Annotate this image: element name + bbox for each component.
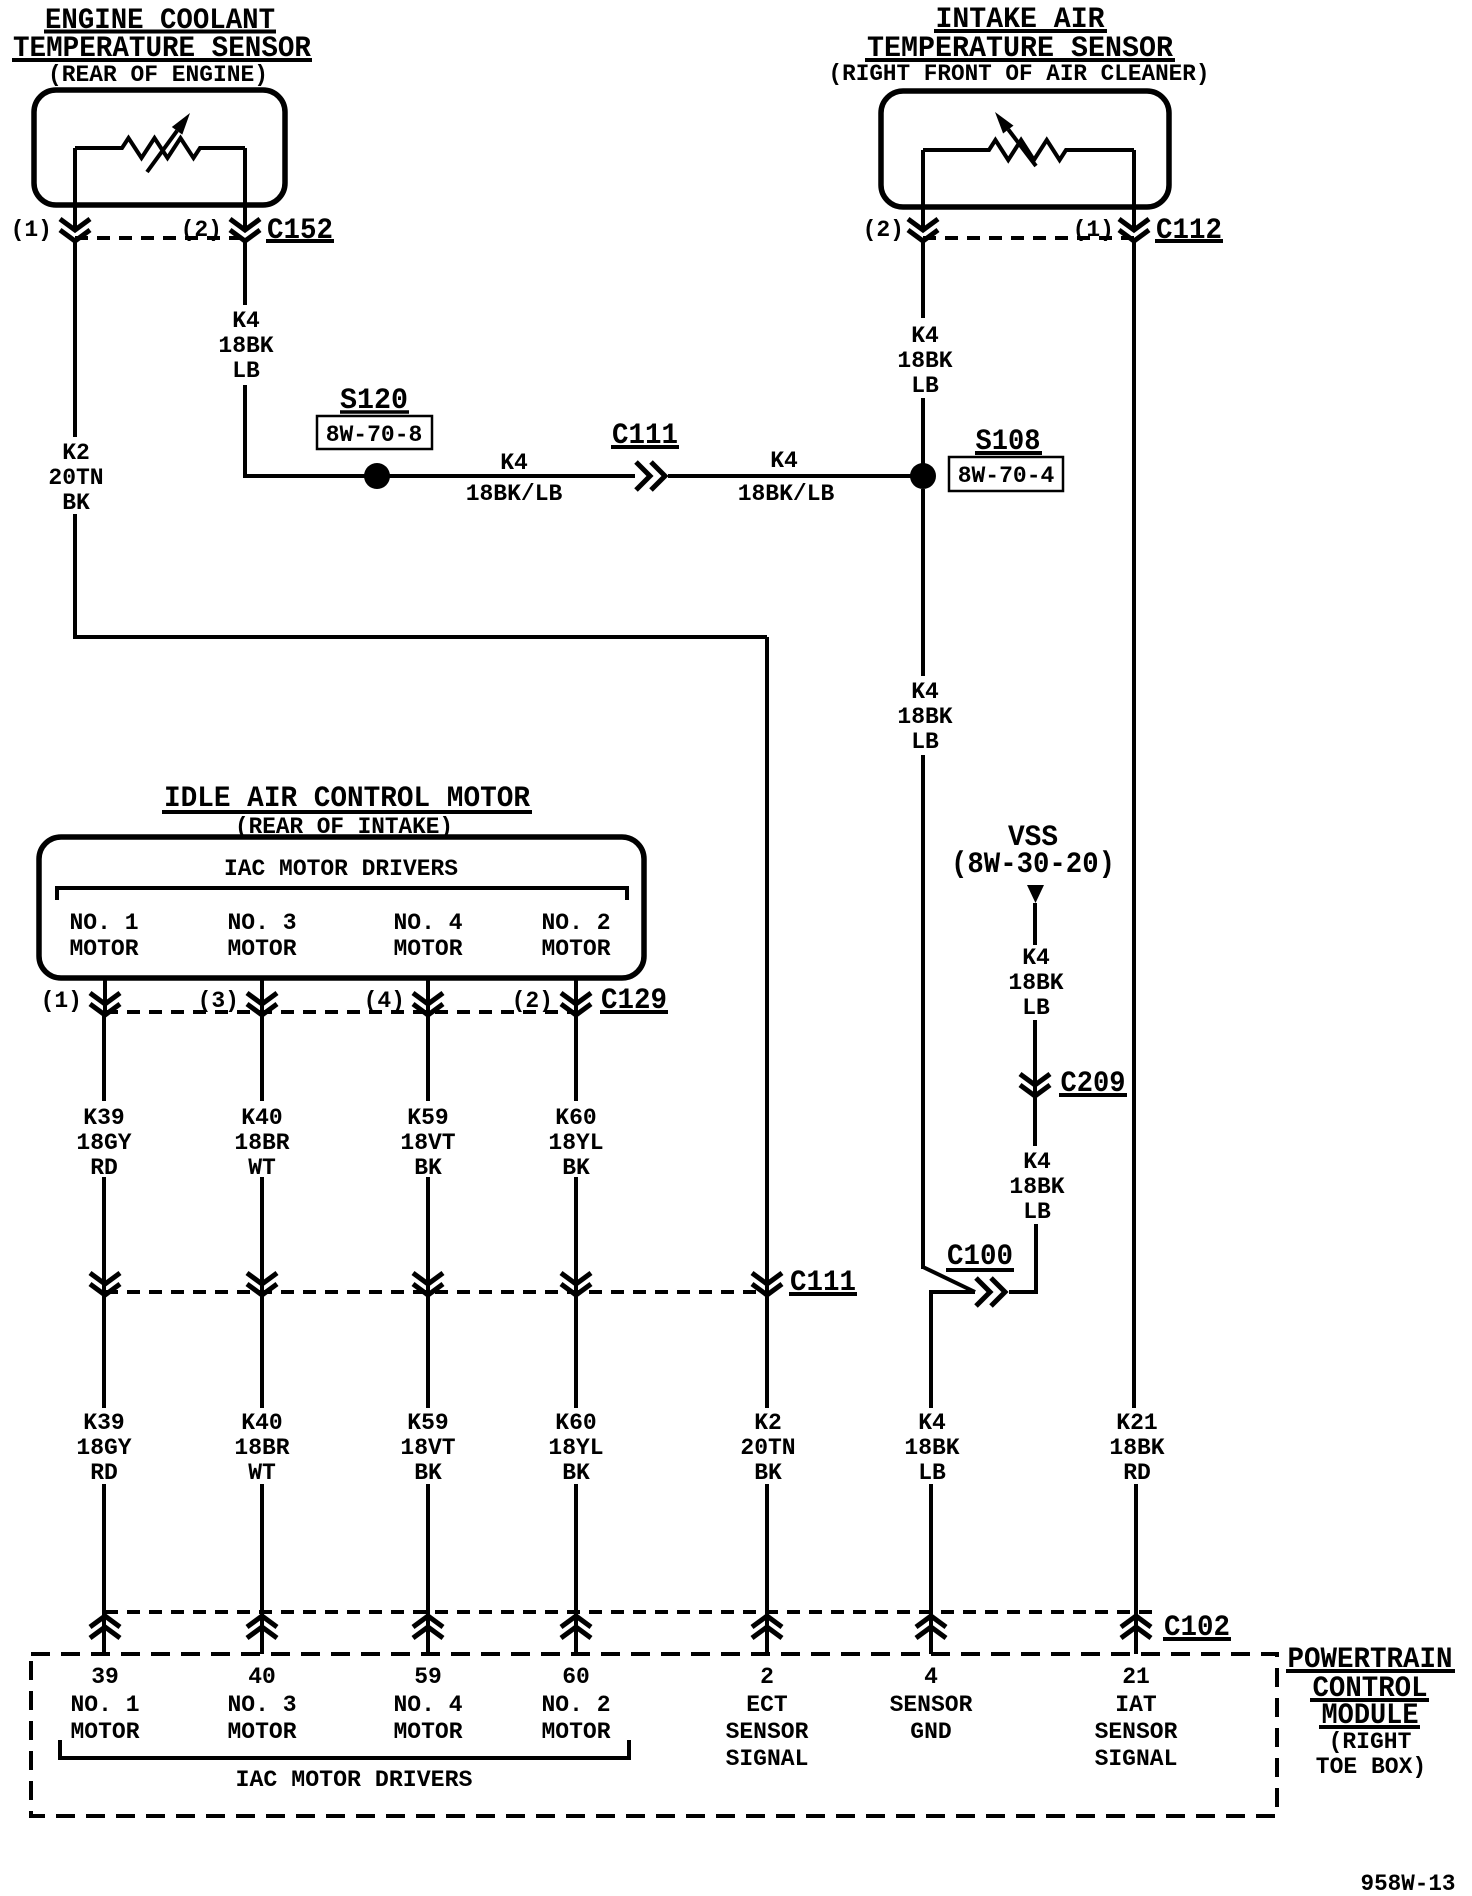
svg-text:K39: K39 <box>83 1105 124 1131</box>
wire IAT pin1 lead <box>1132 150 1136 230</box>
wire ECT signal down to C111 row <box>765 637 769 1295</box>
svg-text:(1): (1) <box>41 988 82 1014</box>
svg-text:18YL: 18YL <box>548 1130 603 1156</box>
wire below C111 at x=104 <box>102 1295 106 1408</box>
svg-text:K4: K4 <box>232 308 260 334</box>
C129 chevron pin (1) <box>90 993 120 1015</box>
svg-text:LB: LB <box>918 1460 946 1486</box>
wire below C129 at x=428 <box>426 1015 430 1101</box>
svg-text:(1): (1) <box>11 217 52 243</box>
wire continues to splice S108 <box>921 398 925 476</box>
svg-text:(2): (2) <box>512 988 553 1014</box>
splice S120 dot <box>364 463 390 489</box>
svg-text:MOTOR: MOTOR <box>227 1719 296 1745</box>
svg-text:18BK: 18BK <box>1008 970 1063 996</box>
svg-text:MOTOR: MOTOR <box>393 936 462 962</box>
svg-text:18BR: 18BR <box>234 1130 289 1156</box>
svg-text:18YL: 18YL <box>548 1435 603 1461</box>
svg-text:MOTOR: MOTOR <box>69 936 138 962</box>
wire K2 horizontal run to right <box>75 635 767 639</box>
svg-text:K40: K40 <box>241 1105 282 1131</box>
svg-text:K4: K4 <box>911 679 939 705</box>
svg-text:(2): (2) <box>181 217 222 243</box>
inline connector C111 chevron <box>636 462 665 490</box>
svg-text:TOE BOX): TOE BOX) <box>1316 1754 1426 1780</box>
svg-text:BK: BK <box>414 1460 442 1486</box>
svg-text:K4: K4 <box>1022 945 1050 971</box>
ECT resistor arrow <box>147 131 177 172</box>
C129 chevron pin (4) <box>413 993 443 1015</box>
wire below C129 at x=262 <box>260 1015 264 1101</box>
IAT variable resistor <box>923 140 1134 160</box>
svg-text:K60: K60 <box>555 1105 596 1131</box>
svg-text:K59: K59 <box>407 1410 448 1436</box>
wire K4 continues down to corner <box>243 385 247 476</box>
wire to C102 at x=104 <box>102 1484 106 1654</box>
svg-text:BK: BK <box>754 1460 782 1486</box>
wire to C111 row at x=428 <box>426 1177 430 1295</box>
wire ECT pin2 lead <box>243 148 247 230</box>
svg-text:40: 40 <box>248 1664 276 1690</box>
svg-text:21: 21 <box>1122 1664 1150 1690</box>
C112 pin 2 chevron <box>908 219 938 241</box>
C152 pin 1 chevron <box>60 219 90 241</box>
IAT resistor arrow <box>1008 130 1036 166</box>
wire horizontal to splice S120 <box>243 474 635 478</box>
svg-text:SIGNAL: SIGNAL <box>726 1746 809 1772</box>
wire to C102 pin 4 <box>929 1484 933 1654</box>
wire below C111 at x=767 <box>765 1295 769 1408</box>
svg-text:BK: BK <box>562 1460 590 1486</box>
wire to C102 at x=767 <box>765 1484 769 1654</box>
svg-text:LB: LB <box>1023 1199 1051 1225</box>
svg-text:MOTOR: MOTOR <box>227 936 296 962</box>
wire IAC motor column 4 <box>574 978 578 1012</box>
wire to C102 at x=262 <box>260 1484 264 1654</box>
svg-text:20TN: 20TN <box>740 1435 795 1461</box>
C152 pin 2 chevron <box>230 219 260 241</box>
wire to C111 row at x=576 <box>574 1177 578 1295</box>
wire IAT signal from C112 pin1 down <box>1132 241 1136 1408</box>
C102 chevron at x=931 <box>916 1616 946 1638</box>
inline connector C100 chevron <box>976 1278 1005 1306</box>
wire C100 right horizontal <box>1009 1290 1036 1294</box>
IAC drivers bracket <box>57 888 627 900</box>
wire continues down to C100 area <box>921 755 925 1269</box>
svg-text:NO. 4: NO. 4 <box>393 910 462 936</box>
wire IAC motor column 1 <box>103 978 107 1012</box>
wire to C111 row at x=104 <box>102 1177 106 1295</box>
wire diagonal into C100 <box>923 1267 975 1292</box>
ECT variable resistor <box>75 138 245 158</box>
wire K4 from C112 pin2 down <box>921 241 925 318</box>
svg-text:18BK: 18BK <box>904 1435 959 1461</box>
wire below C111 at x=262 <box>260 1295 264 1408</box>
svg-text:NO. 1: NO. 1 <box>69 910 138 936</box>
wire IAC motor column 2 <box>260 978 264 1012</box>
svg-text:BK: BK <box>62 490 90 516</box>
wire to C102 at x=428 <box>426 1484 430 1654</box>
svg-text:18BK: 18BK <box>1109 1435 1164 1461</box>
VSS wire origin triangle <box>1027 885 1044 903</box>
splice S108 dot <box>910 463 936 489</box>
C111 row chevron at x=262 <box>247 1273 277 1295</box>
svg-text:18BK/LB: 18BK/LB <box>738 481 835 507</box>
connector C152 dashed line <box>75 236 245 240</box>
wire K4 from C152 pin2 down <box>243 241 247 305</box>
svg-text:IAC MOTOR DRIVERS: IAC MOTOR DRIVERS <box>224 856 458 882</box>
svg-text:MOTOR: MOTOR <box>541 936 610 962</box>
wire below C111 at x=576 <box>574 1295 578 1408</box>
svg-text:K4: K4 <box>1023 1149 1051 1175</box>
wire VSS down <box>1033 903 1037 945</box>
svg-text:RD: RD <box>90 1460 118 1486</box>
svg-text:IAT: IAT <box>1115 1692 1157 1718</box>
wire sensor ground below C100 <box>929 1290 933 1408</box>
svg-text:8W-70-8: 8W-70-8 <box>326 422 423 448</box>
svg-text:8W-70-4: 8W-70-4 <box>958 463 1055 489</box>
C102 chevron at x=1136 <box>1121 1616 1151 1638</box>
svg-text:NO. 3: NO. 3 <box>227 910 296 936</box>
svg-text:20TN: 20TN <box>48 465 103 491</box>
svg-text:LB: LB <box>911 373 939 399</box>
svg-text:2: 2 <box>760 1664 774 1690</box>
svg-text:NO. 3: NO. 3 <box>227 1692 296 1718</box>
wire IAT signal to C102 pin 21 <box>1134 1484 1138 1654</box>
svg-text:K4: K4 <box>911 323 939 349</box>
svg-text:59: 59 <box>414 1664 442 1690</box>
wire below C111 at x=428 <box>426 1295 430 1408</box>
splice S120 reference box 8W-70-8 <box>317 416 432 449</box>
C102 chevron at x=262 <box>247 1616 277 1638</box>
powertrain control module dashed box <box>31 1654 1277 1816</box>
svg-text:LB: LB <box>911 729 939 755</box>
svg-text:ECT: ECT <box>746 1692 788 1718</box>
svg-text:K39: K39 <box>83 1410 124 1436</box>
C111 row chevron at x=576 <box>561 1273 591 1295</box>
PCM IAC drivers bracket <box>60 1740 629 1758</box>
svg-text:(REAR OF ENGINE): (REAR OF ENGINE) <box>48 62 268 88</box>
svg-text:18BK: 18BK <box>897 704 952 730</box>
svg-text:RD: RD <box>1123 1460 1151 1486</box>
svg-text:(1): (1) <box>1073 217 1114 243</box>
svg-text:K40: K40 <box>241 1410 282 1436</box>
svg-text:SENSOR: SENSOR <box>1095 1719 1178 1745</box>
C112 pin 1 chevron <box>1119 219 1149 241</box>
IAT sensor box <box>881 91 1169 207</box>
connector C209 chevron <box>1020 1074 1050 1096</box>
wire to C102 at x=576 <box>574 1484 578 1654</box>
svg-text:(RIGHT FRONT OF AIR CLEANER): (RIGHT FRONT OF AIR CLEANER) <box>829 61 1210 87</box>
svg-text:K21: K21 <box>1116 1410 1157 1436</box>
svg-text:K59: K59 <box>407 1105 448 1131</box>
svg-text:18BK/LB: 18BK/LB <box>466 481 563 507</box>
svg-text:958W-13: 958W-13 <box>1361 1871 1456 1896</box>
wire sensor ground from S108 down <box>921 489 925 676</box>
connector C111 dashed row <box>105 1290 767 1294</box>
wire to C111 row at x=262 <box>260 1177 264 1295</box>
C129 chevron pin (2) <box>561 993 591 1015</box>
wire K2 continues to corner <box>73 514 77 639</box>
wire IAC motor column 3 <box>426 978 430 1012</box>
svg-text:SIGNAL: SIGNAL <box>1095 1746 1178 1772</box>
svg-text:4: 4 <box>924 1664 938 1690</box>
svg-text:NO. 1: NO. 1 <box>70 1692 139 1718</box>
svg-text:GND: GND <box>910 1719 951 1745</box>
wire from C111 to splice S108 <box>668 474 923 478</box>
svg-text:K4: K4 <box>770 448 798 474</box>
svg-text:(RIGHT: (RIGHT <box>1329 1729 1412 1755</box>
svg-text:(4): (4) <box>364 988 405 1014</box>
wire IAT pin2 lead <box>921 150 925 230</box>
svg-text:K60: K60 <box>555 1410 596 1436</box>
svg-text:WT: WT <box>248 1460 276 1486</box>
svg-text:(2): (2) <box>863 217 904 243</box>
wire VSS to C209 <box>1033 1020 1037 1074</box>
C111 row chevron at x=428 <box>413 1273 443 1295</box>
svg-text:SENSOR: SENSOR <box>890 1692 973 1718</box>
svg-text:SENSOR: SENSOR <box>726 1719 809 1745</box>
svg-text:60: 60 <box>562 1664 590 1690</box>
svg-text:(3): (3) <box>198 988 239 1014</box>
connector C102 dashed row <box>105 1610 1155 1614</box>
svg-text:K4: K4 <box>918 1410 946 1436</box>
wire K2 from C152 pin1 down <box>73 241 77 437</box>
connector C112 dashed line <box>923 236 1134 240</box>
splice S108 reference box 8W-70-4 <box>949 457 1063 491</box>
svg-text:18GY: 18GY <box>76 1435 131 1461</box>
svg-text:NO. 4: NO. 4 <box>393 1692 462 1718</box>
C111 row chevron at x=105 <box>90 1273 120 1295</box>
wire ECT pin1 lead <box>73 148 77 230</box>
wire below C129 at x=104 <box>102 1015 106 1101</box>
svg-text:MOTOR: MOTOR <box>393 1719 462 1745</box>
svg-text:18VT: 18VT <box>400 1130 455 1156</box>
svg-text:18BK: 18BK <box>1009 1174 1064 1200</box>
svg-text:18BK: 18BK <box>897 348 952 374</box>
svg-text:K2: K2 <box>754 1410 782 1436</box>
C111 row chevron at x=767 <box>752 1273 782 1295</box>
svg-text:18GY: 18GY <box>76 1130 131 1156</box>
wire from C209 label down to C100 <box>1034 1224 1038 1294</box>
svg-text:K4: K4 <box>500 450 528 476</box>
svg-text:18VT: 18VT <box>400 1435 455 1461</box>
svg-text:MOTOR: MOTOR <box>70 1719 139 1745</box>
C102 chevron at x=105 <box>90 1616 120 1638</box>
svg-text:18BK: 18BK <box>218 333 273 359</box>
svg-text:LB: LB <box>1022 995 1050 1021</box>
svg-text:MOTOR: MOTOR <box>541 1719 610 1745</box>
svg-text:(8W-30-20): (8W-30-20) <box>951 848 1115 882</box>
C102 chevron at x=576 <box>561 1616 591 1638</box>
svg-text:39: 39 <box>91 1664 119 1690</box>
C102 chevron at x=767 <box>752 1616 782 1638</box>
svg-text:K2: K2 <box>62 440 90 466</box>
IAC motor box <box>39 837 644 978</box>
svg-text:LB: LB <box>232 358 260 384</box>
wire below C129 at x=576 <box>574 1015 578 1101</box>
svg-text:NO. 2: NO. 2 <box>541 1692 610 1718</box>
ECT sensor box <box>34 90 285 205</box>
svg-text:NO. 2: NO. 2 <box>541 910 610 936</box>
C102 chevron at x=428 <box>413 1616 443 1638</box>
wire C100 left horizontal <box>931 1290 975 1294</box>
svg-text:IAC MOTOR DRIVERS: IAC MOTOR DRIVERS <box>236 1767 473 1793</box>
svg-text:18BR: 18BR <box>234 1435 289 1461</box>
C129 chevron pin (3) <box>247 993 277 1015</box>
connector C129 dashed line <box>105 1010 576 1014</box>
